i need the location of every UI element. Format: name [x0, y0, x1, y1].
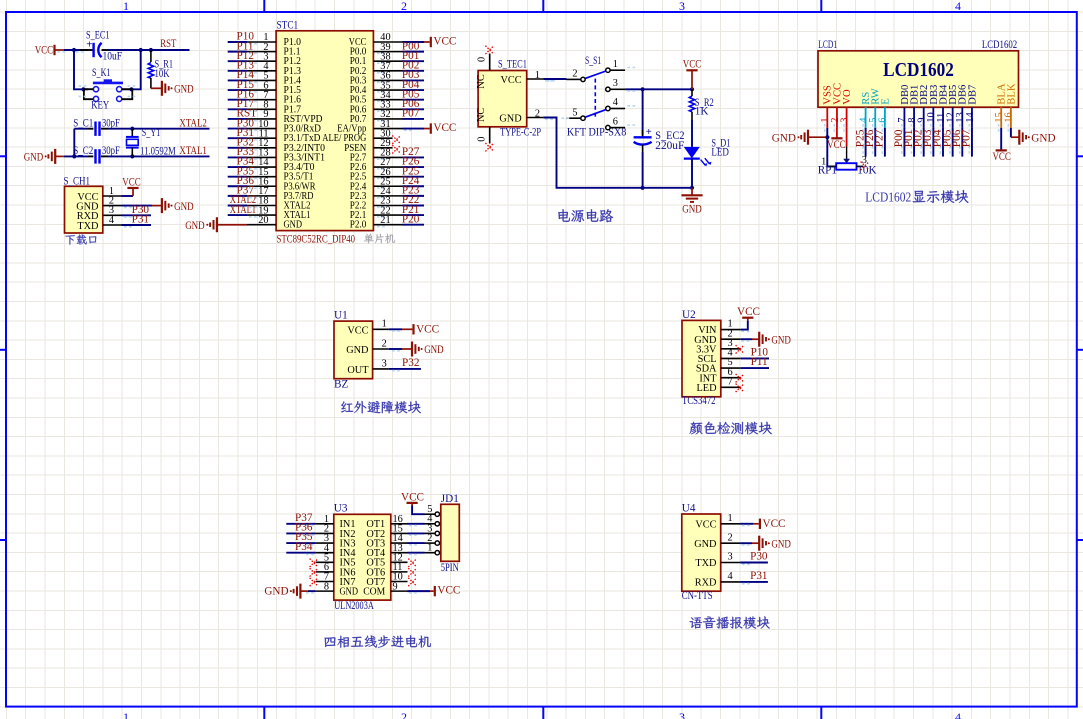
S_CH1 pin 3 — [103, 205, 122, 216]
wire U3 COM to VCC — [408, 591, 434, 593]
net label P02 — [402, 60, 419, 72]
wire net P06 from STC1 pin 33 — [377, 109, 424, 111]
svg-text:VCC: VCC — [35, 45, 54, 57]
svg-text:GND: GND — [682, 203, 702, 215]
STC1 pin 27 — [373, 157, 402, 168]
net label P17 — [237, 98, 255, 110]
crystal S_Y1 11.0592M — [126, 127, 176, 157]
net label P27 — [402, 146, 420, 158]
junction node LCD GND — [825, 135, 829, 139]
U2 pin 3 — [721, 338, 741, 349]
wire rail EC2 to LED — [643, 187, 692, 189]
wire U3 OT2 to JD1 — [408, 533, 425, 535]
wire U2 pin1 to VCC — [741, 321, 750, 332]
wire U3 OT4 to JD1 — [408, 553, 425, 555]
wire net P03 from STC1 pin 36 — [377, 80, 424, 82]
wire S_TEC1 VCC to switch — [543, 79, 566, 81]
svg-text:VCC: VCC — [401, 491, 424, 503]
junction node crystal top — [130, 127, 134, 131]
svg-text:6: 6 — [878, 118, 889, 123]
LCD1 pin 16 BLK — [1004, 107, 1015, 132]
U3 pin 15 — [391, 524, 408, 535]
net label P34 (U3) — [295, 541, 313, 553]
wire STC1 pin 31 to VCC — [403, 129, 430, 131]
net label P11 — [237, 40, 254, 52]
LCD1 pin 4 RS — [858, 107, 869, 132]
junction node key left — [81, 87, 85, 91]
svg-text:NC: NC — [476, 74, 487, 88]
wire net P14 to STC1 pin 5 — [228, 80, 257, 82]
net label XTAL1 — [230, 204, 256, 216]
net label P35 — [237, 165, 255, 177]
net label P22 — [402, 194, 419, 206]
wire net P04 from STC1 pin 35 — [377, 90, 424, 92]
svg-text:9: 9 — [393, 581, 398, 592]
junction node reset-left — [72, 48, 76, 52]
LCD1 pin 13 DB6 — [955, 107, 966, 132]
svg-text:4: 4 — [955, 0, 961, 13]
caption stepper motor — [325, 635, 431, 647]
svg-text:1: 1 — [535, 70, 540, 81]
STC1 pin 12 — [247, 138, 276, 149]
STC1 pin 36 — [373, 71, 402, 82]
U2 pin 2 — [721, 328, 741, 339]
wire net P25 from STC1 pin 26 — [377, 177, 424, 179]
net label P06 (LCD) — [951, 129, 963, 147]
U4 pin 3 — [721, 552, 740, 563]
wire U1 pin1 to VCC — [389, 329, 413, 331]
svg-text:VCC: VCC — [437, 585, 460, 597]
wire LCD pin 5 net P26 — [873, 128, 876, 157]
wire net P37 to STC1 pin 17 — [228, 196, 257, 198]
wire net P10 to STC1 pin 1 — [228, 42, 257, 44]
STC1 pin 23 — [373, 196, 402, 207]
net label P21 — [402, 204, 419, 216]
STC1 pin 35 — [373, 80, 402, 91]
svg-text:P11: P11 — [751, 356, 768, 368]
ground GND (S_CH1) — [152, 198, 194, 213]
U1 pin 2 — [373, 338, 389, 349]
STC1 pin 29 — [373, 138, 392, 149]
U2 pin 5 — [721, 357, 741, 368]
wire U2 pin2 to GND — [741, 339, 760, 341]
wire U3 pin 2 net P36 — [286, 533, 315, 535]
wire R2 to LED — [691, 120, 693, 147]
svg-text:U3: U3 — [334, 503, 348, 515]
wire S_TEC1 GND down to rail — [543, 118, 642, 188]
power port VCC (reset circuit) — [35, 45, 64, 57]
LCD1 pin 3 VO — [839, 107, 850, 132]
svg-text:VCC: VCC — [433, 36, 456, 48]
svg-text:P31: P31 — [750, 570, 767, 582]
svg-text:VCC: VCC — [695, 519, 716, 530]
U4 pin 2 — [721, 532, 740, 543]
svg-text:LCD1: LCD1 — [818, 39, 837, 51]
svg-text:BZ: BZ — [334, 379, 348, 391]
wire net P02 from STC1 pin 37 — [377, 71, 424, 73]
svg-text:LCD1602: LCD1602 — [883, 59, 954, 81]
net label P23 — [402, 185, 420, 197]
wire LCD pin 11 net P04 — [940, 128, 943, 157]
svg-text:VCC: VCC — [827, 139, 846, 151]
U3 pin 4 — [316, 543, 334, 554]
wire VCC junction down to key switch — [74, 50, 88, 89]
potentiometer RP1 10K — [818, 155, 877, 177]
svg-text:7: 7 — [728, 376, 733, 387]
power port VCC (U2) — [737, 306, 760, 320]
power port VCC (STC1 pin 31) — [431, 122, 457, 134]
wire S_C1 to XTAL2 — [108, 128, 210, 130]
svg-text:GND: GND — [694, 539, 717, 550]
wire net P35 to STC1 pin 15 — [228, 177, 257, 179]
STC1 pin 30 — [373, 128, 392, 139]
wire JD1 pin5 to VCC — [412, 503, 424, 514]
junction node crystal-left — [72, 154, 76, 158]
svg-text:GND: GND — [499, 113, 522, 124]
net label P10 — [237, 31, 255, 43]
svg-text:P07: P07 — [402, 108, 420, 120]
net label P25 (LCD) — [854, 129, 866, 147]
svg-text:1: 1 — [427, 543, 432, 554]
net label P31 (U4) — [750, 570, 767, 582]
LCD1 pin 7 DB0 — [897, 107, 908, 132]
svg-text:5PIN: 5PIN — [441, 562, 459, 574]
svg-text:P2.0: P2.0 — [350, 220, 367, 231]
power port VCC (U3 COM) — [435, 585, 461, 597]
net label P07 (LCD) — [961, 129, 973, 147]
U3 pin 9 — [391, 581, 408, 592]
svg-text:1K: 1K — [695, 106, 709, 118]
no-connect U3 pin 7 — [310, 578, 318, 586]
STC1 pin 18 — [247, 196, 276, 207]
wire net P20 from STC1 pin 21 — [377, 225, 424, 227]
svg-text:20: 20 — [258, 215, 268, 226]
S_TEC1 pin 0 top — [477, 54, 490, 71]
svg-text:S_TEC1: S_TEC1 — [498, 58, 527, 70]
svg-text:2: 2 — [728, 532, 733, 543]
svg-text:VCC: VCC — [992, 151, 1011, 163]
wire net P32 to STC1 pin 12 — [228, 148, 257, 150]
svg-text:S_EC1: S_EC1 — [86, 29, 110, 41]
svg-text:XTAL1: XTAL1 — [179, 145, 207, 157]
svg-text:KEY: KEY — [91, 100, 109, 112]
wire U4 pin3 net P30 — [740, 563, 768, 565]
microcontroller STC1 STC89C52RC_DIP40 — [276, 20, 373, 246]
svg-text:4: 4 — [955, 710, 961, 719]
svg-text:P20: P20 — [402, 213, 420, 225]
LCD1 pin 8 DB1 — [907, 107, 918, 132]
STC1 pin 1 — [247, 32, 276, 43]
ground GND (U4) — [759, 536, 791, 551]
net label RST — [160, 38, 176, 50]
STC1 pin 10 — [247, 119, 276, 130]
STC1 pin 37 — [373, 61, 402, 72]
no-connect U3 pin 10 — [408, 578, 416, 586]
net label P01 (LCD) — [903, 130, 915, 148]
net label P31 (S_CH1) — [132, 214, 149, 226]
STC1 pin 8 — [247, 100, 276, 111]
connector S_CH1 (download port) — [64, 175, 103, 233]
wire LED to GND — [691, 159, 693, 188]
wire switch pin3 to VCC node — [625, 89, 692, 91]
LCD1 pin 15 BLA — [994, 107, 1005, 132]
svg-text:1: 1 — [123, 710, 129, 719]
svg-text:VCC: VCC — [501, 75, 522, 86]
svg-text:U2: U2 — [682, 309, 696, 321]
svg-text:RXD: RXD — [695, 578, 717, 589]
U1 pin 1 — [373, 319, 389, 330]
svg-text:GND: GND — [340, 587, 359, 598]
wire net P17 to STC1 pin 8 — [228, 109, 257, 111]
wire LCD pin 7 net P00 — [902, 128, 905, 157]
junction node rail-GND — [690, 186, 694, 190]
wire U4 pin1 to VCC — [740, 524, 759, 526]
svg-text:TXD: TXD — [695, 558, 717, 569]
svg-text:5: 5 — [572, 107, 577, 118]
STC1 pin 13 — [247, 148, 276, 159]
svg-text:GND: GND — [185, 220, 205, 232]
svg-text:8: 8 — [324, 581, 329, 592]
wire LCD pin 12 net P05 — [950, 128, 953, 157]
STC1 pin 19 — [247, 205, 276, 216]
wire net P33 to STC1 pin 13 — [228, 157, 257, 159]
net label P35 (U3) — [295, 531, 313, 543]
svg-text:VCC: VCC — [122, 176, 141, 188]
junction node at S_R1 branch — [149, 48, 153, 52]
svg-text:E: E — [880, 98, 891, 104]
no-connect U3 pin 6 — [310, 568, 318, 576]
svg-text:RP1: RP1 — [818, 164, 837, 176]
ground GND (supply) — [681, 188, 702, 216]
svg-text:4: 4 — [728, 571, 733, 582]
LCD1 pin 11 DB4 — [936, 107, 947, 132]
svg-text:14: 14 — [965, 112, 976, 123]
net label P27 (LCD) — [874, 129, 886, 147]
wire net XTAL1 to STC1 pin 19 — [228, 215, 257, 217]
STC1 pin 6 — [247, 80, 276, 91]
wire U3 OT1 to JD1 — [408, 524, 425, 526]
wire LCD pin1 to GND/RP1 — [827, 128, 836, 166]
STC1 pin 9 — [247, 109, 276, 120]
net label P26 (LCD) — [864, 129, 876, 147]
resistor S_R2 1K — [689, 89, 714, 120]
S_TEC1 pin 0 bottom — [477, 127, 490, 144]
U2 pin 7 — [721, 376, 741, 387]
wire net P15 to STC1 pin 6 — [228, 90, 257, 92]
power port VCC (U4) — [760, 518, 786, 530]
net label P37 — [237, 185, 255, 197]
wire EC2 to ground rail — [642, 152, 644, 188]
svg-text:VCC: VCC — [737, 306, 760, 318]
svg-text:U1: U1 — [334, 310, 348, 322]
net label P00 — [402, 40, 420, 52]
STC1 pin 14 — [247, 157, 276, 168]
svg-text:2: 2 — [401, 0, 407, 13]
junction node cap branch — [641, 87, 645, 91]
svg-text:LCD1602: LCD1602 — [982, 39, 1017, 51]
svg-text:2: 2 — [401, 710, 407, 719]
power port VCC (S_CH1) — [122, 176, 141, 196]
net label P00 (LCD) — [893, 129, 905, 147]
net label P10 (U2) — [751, 346, 769, 358]
power port VCC (JD1) — [401, 491, 424, 503]
svg-text:TXD: TXD — [77, 221, 99, 232]
wire LCD pin 13 net P06 — [960, 128, 963, 157]
svg-text:4: 4 — [613, 97, 618, 108]
net label P02 (LCD) — [912, 129, 924, 147]
svg-text:NC: NC — [476, 108, 487, 122]
no-connect U3 pin 12 — [408, 559, 416, 567]
STC1 pin 17 — [247, 186, 276, 197]
STC1 pin 15 — [247, 167, 276, 178]
STC1 pin 2 — [247, 42, 276, 53]
wire net P36 to STC1 pin 16 — [228, 186, 257, 188]
svg-text:30pF: 30pF — [102, 117, 120, 129]
svg-text:0: 0 — [477, 57, 488, 62]
S_CH1 pin 1 — [103, 186, 122, 197]
U3 pin 13 — [391, 543, 408, 554]
junction node rail-EC2 — [641, 186, 645, 190]
net label P05 (LCD) — [941, 129, 953, 147]
wire LCD pin 9 net P02 — [921, 128, 924, 157]
power port VCC (U1) — [414, 323, 440, 335]
svg-text:2: 2 — [572, 69, 577, 80]
STC1 pin 32 — [373, 109, 402, 120]
LCD1 pin 1 VSS — [820, 107, 831, 132]
STC1 pin 3 — [247, 51, 276, 62]
wire LCD pin 4 net P25 — [863, 128, 866, 157]
wire net P24 from STC1 pin 25 — [377, 186, 424, 188]
STC1 pin 5 — [247, 71, 276, 82]
svg-text:16: 16 — [1004, 112, 1015, 123]
svg-text:GND: GND — [24, 152, 44, 164]
ground GND (LCD backlight) — [1019, 130, 1055, 145]
wire P31 stub (S_CH1) — [122, 225, 152, 227]
svg-text:10uF: 10uF — [103, 50, 123, 62]
net label P36 — [237, 175, 255, 187]
wire net P12 to STC1 pin 3 — [228, 61, 257, 63]
net label P33 — [237, 146, 255, 158]
wire GND to S_C2 — [64, 155, 88, 157]
wire net P16 to STC1 pin 7 — [228, 100, 257, 102]
svg-text:GND: GND — [264, 586, 288, 598]
capacitor S_C1 30pF — [73, 117, 120, 136]
svg-text:3: 3 — [679, 0, 685, 13]
svg-text:S_C2: S_C2 — [73, 145, 93, 157]
no-connect STC1 pin 29 — [392, 145, 400, 153]
STC1 pin 7 — [247, 90, 276, 101]
LCD1 pin 6 E — [878, 107, 889, 132]
ground GND (reset) — [151, 81, 194, 96]
svg-text:S_S1: S_S1 — [585, 55, 601, 67]
ground GND (U1) — [412, 342, 444, 357]
net label P04 — [402, 79, 420, 91]
U3 pin 7 — [316, 572, 334, 583]
svg-text:LED: LED — [711, 146, 729, 158]
wire U4 pin4 net P31 — [740, 582, 768, 584]
svg-text:GND: GND — [174, 84, 194, 96]
no-connect S_TEC1 top — [485, 46, 493, 54]
net label P32 — [237, 136, 254, 148]
capacitor S_C2 30pF — [73, 145, 120, 163]
net label P30 — [237, 117, 255, 129]
wire LCD pin 10 net P03 — [931, 128, 934, 157]
STC1 pin 26 — [373, 167, 402, 178]
wire U3 pin 4 net P34 — [286, 553, 315, 555]
svg-text:GND: GND — [772, 132, 796, 144]
no-connect U2 pin3 — [736, 345, 744, 353]
svg-text:VCC: VCC — [683, 59, 702, 71]
ic U3 ULN2003A (stepper driver) — [334, 503, 391, 612]
net label P04 (LCD) — [932, 129, 944, 147]
LCD1 pin 10 DB3 — [926, 107, 937, 132]
wire crystal left vertical — [74, 129, 88, 157]
svg-text:10K: 10K — [155, 68, 170, 80]
svg-text:S_C1: S_C1 — [73, 117, 93, 129]
svg-text:JD1: JD1 — [441, 493, 459, 505]
wire LCD pin 6 net P27 — [882, 128, 885, 157]
U4 pin 4 — [721, 571, 740, 582]
net label P31 — [237, 127, 254, 139]
net label P07 — [402, 108, 420, 120]
no-connect U2 pin6 — [736, 374, 744, 382]
wire net P31 to STC1 pin 11 — [228, 138, 257, 140]
wire net P22 from STC1 pin 23 — [377, 205, 424, 207]
wire VCC to S_EC1 — [58, 50, 89, 52]
LCD1 pin 2 VCC — [830, 107, 841, 132]
STC1 pin 33 — [373, 100, 402, 111]
switch S_S1 KFT DIP-SX8 — [547, 55, 635, 138]
no-connect S_TEC1 bottom — [485, 143, 493, 151]
U4 pin 1 — [721, 513, 740, 524]
ground GND (U3) — [264, 584, 308, 599]
wire key switch right side up to RST net — [123, 50, 141, 89]
STC1 pin 16 — [247, 176, 276, 187]
net label P05 — [402, 88, 420, 100]
net label P16 — [237, 88, 255, 100]
net label P30 (S_CH1) — [132, 204, 150, 216]
ic U2 TCS3472 (color sensor) — [682, 309, 721, 407]
wire net P05 from STC1 pin 34 — [377, 100, 424, 102]
U3 pin 1 — [316, 514, 334, 525]
net label P03 (LCD) — [922, 129, 934, 147]
wire LCD pin15 to VCC — [1000, 128, 1002, 150]
svg-text:P07: P07 — [961, 129, 973, 147]
svg-text:VO: VO — [842, 89, 853, 105]
STC1 pin 22 — [373, 205, 402, 216]
S_CH1 pin 4 — [103, 215, 122, 226]
U3 pin 14 — [391, 533, 408, 544]
wire STC1 pin 40 to VCC — [403, 42, 430, 44]
svg-text:CN-TTS: CN-TTS — [682, 590, 713, 602]
svg-text:P30: P30 — [750, 550, 768, 562]
wire net P30 to STC1 pin 10 — [228, 129, 257, 131]
net label P34 — [237, 156, 255, 168]
svg-text:21: 21 — [380, 215, 390, 226]
wire U4 pin2 to GND — [740, 543, 759, 545]
no-connect STC1 pin 30 — [392, 135, 400, 143]
svg-text:VCC: VCC — [347, 325, 368, 336]
svg-text:30pF: 30pF — [102, 145, 120, 157]
power port VCC (STC1 pin 40) — [431, 36, 457, 48]
svg-text:GND: GND — [424, 344, 444, 356]
led S_D1 LED — [684, 138, 731, 167]
net label P15 — [237, 79, 255, 91]
svg-text:GND: GND — [174, 201, 194, 213]
svg-text:3: 3 — [613, 78, 618, 89]
pushbutton S_K1 KEY — [79, 67, 136, 111]
caption LCD1602 display module — [865, 190, 968, 206]
